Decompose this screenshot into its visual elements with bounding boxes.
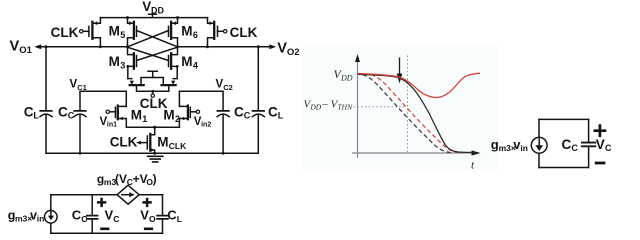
svg-text:C: C: [68, 111, 75, 121]
svg-text:C: C: [167, 208, 177, 223]
svg-text:C: C: [605, 143, 612, 153]
svg-text:V: V: [10, 39, 20, 55]
svg-text:M: M: [109, 54, 120, 69]
svg-text:L: L: [177, 214, 182, 224]
svg-text:M: M: [181, 24, 192, 39]
svg-text:4: 4: [193, 60, 198, 70]
svg-text:C: C: [571, 143, 578, 153]
svg-text:C2: C2: [223, 83, 233, 92]
svg-text:C: C: [268, 104, 278, 119]
svg-text:V: V: [596, 137, 605, 152]
svg-text:THN: THN: [338, 102, 354, 111]
svg-text:V: V: [140, 208, 149, 223]
svg-text:–: –: [321, 98, 328, 110]
svg-text:in1: in1: [107, 122, 117, 129]
svg-text:O1: O1: [19, 45, 32, 56]
svg-text:L: L: [33, 111, 39, 121]
svg-text:M: M: [109, 24, 120, 39]
svg-text:V: V: [105, 208, 114, 223]
svg-text:in: in: [37, 214, 45, 224]
svg-text:C: C: [113, 214, 119, 224]
svg-text:g: g: [491, 137, 499, 152]
svg-text:3: 3: [120, 60, 125, 70]
svg-text:): ): [153, 172, 157, 186]
svg-text:C: C: [81, 214, 87, 224]
svg-text:6: 6: [193, 30, 198, 40]
svg-text:C: C: [58, 104, 68, 119]
svg-text:C: C: [244, 111, 251, 121]
svg-text:C1: C1: [77, 83, 87, 92]
svg-text:O2: O2: [287, 47, 300, 58]
svg-text:C: C: [24, 104, 34, 119]
svg-text:CLK: CLK: [140, 96, 168, 111]
svg-text:2: 2: [175, 114, 180, 124]
svg-text:V: V: [142, 0, 151, 14]
svg-text:M: M: [181, 54, 192, 69]
svg-text:CLK: CLK: [230, 25, 258, 40]
svg-text:C: C: [72, 208, 82, 223]
svg-text:C: C: [562, 137, 572, 152]
svg-text:+V: +V: [133, 172, 148, 186]
svg-text:DD: DD: [340, 73, 353, 82]
svg-text:CLK: CLK: [51, 25, 79, 40]
svg-text:1: 1: [142, 114, 147, 124]
svg-text:M: M: [157, 135, 168, 150]
svg-text:in2: in2: [201, 122, 211, 129]
svg-text:CLK: CLK: [110, 135, 138, 150]
svg-text:C: C: [234, 104, 244, 119]
svg-text:5: 5: [120, 30, 125, 40]
svg-text:in: in: [520, 143, 528, 153]
svg-text:CLK: CLK: [169, 141, 187, 151]
svg-text:V: V: [277, 41, 287, 57]
svg-text:DD: DD: [151, 5, 164, 15]
svg-text:DD: DD: [309, 102, 321, 111]
svg-text:L: L: [278, 111, 284, 121]
svg-text:(V: (V: [115, 172, 127, 186]
svg-text:O: O: [149, 214, 156, 224]
